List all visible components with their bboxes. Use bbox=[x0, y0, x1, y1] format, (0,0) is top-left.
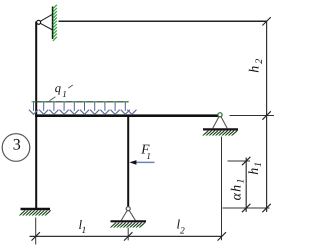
svg-text:2: 2 bbox=[180, 227, 185, 237]
scheme number circle bbox=[2, 134, 30, 162]
distributed load q1 arrow stems bbox=[34, 102, 126, 111]
svg-text:3: 3 bbox=[13, 137, 21, 154]
extension line below middle pin support bbox=[127, 228, 129, 241]
svg-text:1: 1 bbox=[82, 226, 87, 236]
tick at h2 top bbox=[262, 17, 270, 25]
bottom-middle support hatch bbox=[110, 223, 144, 227]
q1 leader line bbox=[50, 85, 73, 101]
extension line below left fixed support bbox=[35, 218, 37, 245]
extension line at beam level to h dimension bbox=[230, 115, 275, 117]
distributed load q1 arrowheads bbox=[29, 110, 137, 115]
svg-text:1: 1 bbox=[62, 89, 66, 99]
extension line at force level (alpha h1 top) bbox=[228, 160, 251, 162]
tick at l1/l2 middle bbox=[124, 232, 132, 240]
tick at l1 left bbox=[32, 232, 40, 240]
bottom-middle pin support triangle bbox=[121, 210, 135, 220]
bottom-left fixed support ground line bbox=[21, 208, 51, 211]
top-left support pin circle bbox=[37, 20, 41, 24]
bottom-middle pin support circle bbox=[126, 207, 130, 211]
extension line below right support bbox=[221, 137, 223, 241]
main right dimension line h2/h1 bbox=[266, 21, 268, 212]
distributed load q1 green dashes bbox=[32, 101, 128, 103]
left column member bbox=[35, 22, 37, 209]
tick at l2 right bbox=[218, 232, 226, 240]
top-left wall hatch bbox=[53, 5, 57, 41]
right support ground line bbox=[203, 128, 238, 130]
tick at alpha h1 bottom bbox=[242, 204, 250, 212]
force F1 arrowhead bbox=[129, 160, 136, 165]
main beam member bbox=[35, 114, 218, 117]
tick at alpha h1 top bbox=[242, 157, 250, 165]
svg-text:1: 1 bbox=[146, 151, 151, 161]
top-left wall line bbox=[52, 7, 54, 40]
tick at beam level on main dim line bbox=[262, 111, 270, 119]
tick at base level on main dim line bbox=[262, 204, 270, 212]
bottom dimension line l1 l2 bbox=[30, 235, 222, 237]
svg-text:q: q bbox=[55, 81, 61, 95]
force F1 arrow shaft bbox=[133, 161, 155, 163]
extension line at base level bbox=[223, 207, 270, 209]
distributed load q1 top line bbox=[33, 101, 129, 103]
middle column member bbox=[127, 115, 129, 207]
right support hatch bbox=[203, 131, 237, 135]
top-left support triangle bbox=[40, 14, 52, 30]
right roller support triangle bbox=[213, 117, 228, 129]
top extension line (h2 upper reference) bbox=[59, 20, 268, 22]
alpha h1 dimension line bbox=[245, 158, 247, 213]
bottom-left fixed support hatch bbox=[19, 211, 50, 216]
right roller support circle bbox=[218, 113, 222, 117]
bottom-middle support ground line bbox=[111, 220, 147, 222]
